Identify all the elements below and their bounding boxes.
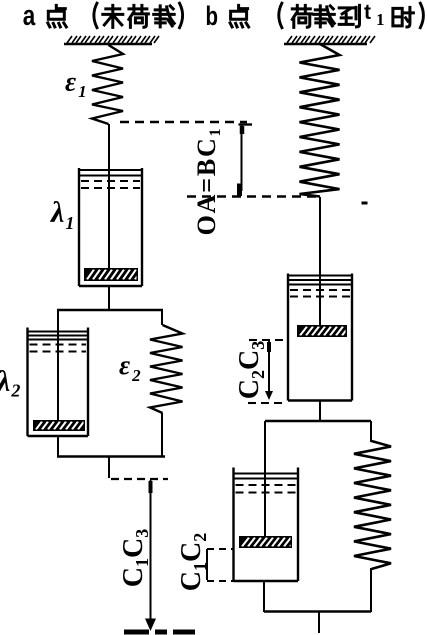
- svg-text:OA=BC1: OA=BC1: [192, 127, 224, 236]
- svg-text:b: b: [206, 1, 219, 31]
- svg-text:t: t: [364, 1, 371, 24]
- svg-text:1: 1: [376, 10, 385, 29]
- svg-text:a: a: [23, 0, 36, 32]
